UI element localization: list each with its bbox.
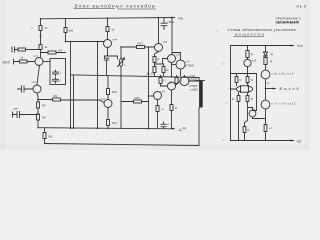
wire: VT4 emitter network with diode VD1 bbox=[104, 48, 117, 76]
wire: VT6 collector bbox=[171, 18, 173, 55]
wire: mirror rail bbox=[231, 73, 257, 75]
resistor R23 on vertical bbox=[163, 64, 165, 76]
svg-text:ОБОЗНАЧЕНИЯ: ОБОЗНАЧЕНИЯ bbox=[276, 20, 300, 24]
resistor R32 bbox=[243, 127, 246, 133]
svg-text:vт9: vт9 bbox=[161, 90, 166, 94]
top rail +U1 bbox=[41, 18, 175, 19]
svg-text:R: R bbox=[268, 81, 270, 85]
svg-text:vт5: vт5 bbox=[163, 40, 168, 44]
transistor VT10 (output, КТ805) bbox=[180, 77, 189, 86]
resistor R1 bbox=[39, 26, 42, 31]
svg-text:vд: vд bbox=[270, 52, 273, 56]
resistor R22 on base feed wire bbox=[121, 101, 149, 103]
svg-text:R17: R17 bbox=[138, 42, 144, 46]
svg-text:-Uп: -Uп bbox=[296, 140, 301, 144]
resistor R4 (collector link) bbox=[42, 52, 66, 54]
resistor R18 bbox=[153, 57, 156, 63]
wire: -U rail (appendix) bbox=[231, 140, 294, 142]
wire: long vertical to rail A bbox=[70, 42, 72, 129]
wire: collector column of VT4 bbox=[107, 18, 109, 39]
transistor VT5 (appendix) bbox=[244, 59, 251, 66]
wire: long vertical x148 bbox=[148, 47, 150, 129]
wire bbox=[176, 84, 177, 86]
svg-text:R: R bbox=[251, 53, 253, 57]
svg-text:ы: ы bbox=[223, 138, 225, 142]
transistor VT5 (driver) bbox=[158, 18, 160, 44]
svg-text:R: R bbox=[251, 97, 253, 101]
capacitor C9 bbox=[264, 125, 267, 132]
wire: output mid rail bbox=[71, 75, 200, 81]
margin noise marks bbox=[223, 62, 228, 142]
capacitor C7 with label век bbox=[14, 107, 19, 111]
resistor R27 bbox=[247, 46, 249, 60]
svg-text:R: R bbox=[240, 78, 242, 82]
title text bbox=[75, 3, 155, 9]
transistor VT12 (mirror, horizontal oval) bbox=[236, 86, 252, 93]
svg-text:R8: R8 bbox=[49, 135, 53, 139]
svg-text:vт1: vт1 bbox=[34, 54, 39, 58]
svg-text:R9: R9 bbox=[54, 94, 58, 98]
resistor R19 bbox=[153, 67, 156, 73]
svg-text:R: R bbox=[164, 79, 166, 83]
transistor VT4 bbox=[104, 40, 112, 48]
svg-text:vт8: vт8 bbox=[168, 81, 173, 85]
svg-text:R: R bbox=[175, 106, 177, 110]
wire: bottom rail B bbox=[45, 108, 200, 146]
resistor R25 bbox=[176, 76, 178, 78]
wire: column x65 bbox=[65, 19, 67, 42]
svg-text:век: век bbox=[14, 107, 19, 111]
wire: VT9 base bbox=[149, 95, 154, 97]
transistor VT2 bbox=[33, 85, 41, 93]
svg-text:R: R bbox=[251, 78, 253, 82]
transistor VT8 bbox=[161, 84, 168, 87]
right header: ПРИЛОЖЕНИЕ С bbox=[228, 16, 302, 36]
svg-text:+50м: +50м bbox=[167, 20, 174, 24]
svg-text:R: R bbox=[167, 68, 169, 72]
capacitor C3 (in box) bbox=[53, 77, 59, 83]
transistor VT13 with wire x256 bbox=[253, 74, 257, 111]
wire + resistor R5a: base line of VT1 bbox=[14, 59, 36, 64]
transistor VT6 bbox=[168, 55, 176, 63]
wire + resistor R26: VT8 emitter bbox=[171, 90, 173, 129]
svg-text:vт4: vт4 bbox=[113, 38, 118, 42]
svg-text:ы: ы bbox=[226, 101, 228, 105]
resistor R24 bbox=[160, 76, 162, 78]
node: input label Вход bbox=[3, 61, 11, 65]
wire: VT1 emitter to VT2 bbox=[37, 65, 40, 85]
wire: negative rail A (-U2) bbox=[38, 128, 175, 129]
load Rн (output bar) bbox=[197, 80, 205, 82]
capacitor C2 (in box) bbox=[53, 70, 59, 76]
diode VD2 column bbox=[120, 47, 122, 129]
svg-text:КТ808: КТ808 bbox=[186, 63, 194, 67]
svg-text:R: R bbox=[158, 58, 160, 62]
wire: left vertical bbox=[230, 46, 232, 141]
transistor VT1 bbox=[35, 58, 43, 66]
svg-text:vт5: vт5 bbox=[252, 59, 257, 63]
resistor R2 bbox=[39, 45, 42, 50]
title underline bbox=[74, 8, 156, 10]
svg-text:Вход: Вход bbox=[3, 61, 11, 65]
svg-text:R20: R20 bbox=[112, 90, 118, 94]
transistor VT9 bbox=[154, 92, 162, 100]
wire bbox=[97, 42, 99, 129]
resistor R33 bbox=[265, 56, 267, 70]
svg-text:R4: R4 bbox=[59, 49, 63, 53]
svg-text:vт2: vт2 bbox=[32, 80, 37, 84]
svg-text:R21: R21 bbox=[112, 121, 118, 125]
wire + resistors R20: VT3 column bbox=[107, 76, 109, 129]
svg-text:vт6,vт8,vт10: vт6,vт8,vт10 bbox=[272, 72, 294, 76]
svg-text:л: л bbox=[216, 29, 219, 33]
svg-text:vт7,vт9,vт11: vт7,vт9,vт11 bbox=[272, 102, 296, 106]
svg-text:R6: R6 bbox=[42, 116, 46, 120]
svg-text:R: R bbox=[270, 60, 272, 64]
svg-text:Rн: Rн bbox=[183, 126, 187, 130]
resistor R9 on VT3 base wire bbox=[38, 100, 104, 103]
capacitor C6: VT2 base input bbox=[18, 86, 34, 92]
resistor R12 bbox=[106, 27, 109, 32]
wire: base line to VT4 bbox=[66, 41, 104, 43]
wire + resistors R5,R6: VT2 emitter column bbox=[37, 93, 38, 128]
capacitor C1 (input coupling) bbox=[12, 47, 18, 52]
capacitor C5 on VT9 emitter bbox=[157, 100, 159, 129]
svg-text:+Uп: +Uп bbox=[297, 44, 303, 48]
resistors R28,R29 (mirror top) bbox=[237, 74, 248, 87]
svg-text:+U₁: +U₁ bbox=[178, 17, 185, 21]
svg-text:R22: R22 bbox=[135, 96, 141, 100]
resistor R4a (input) bbox=[18, 48, 26, 51]
wire: VT6 emitter bbox=[171, 63, 173, 76]
wire: +U rail (appendix) bbox=[231, 45, 294, 47]
resistors R30,R31 (mirror bottom) bbox=[239, 93, 248, 141]
svg-text:5к6: 5к6 bbox=[69, 29, 74, 33]
wire: VT5 emitter bbox=[155, 52, 159, 76]
svg-text:R: R bbox=[232, 97, 234, 101]
capacitor C8 on rail A bbox=[161, 122, 166, 129]
resistor R8 between rails bbox=[44, 128, 46, 143]
svg-text:R5: R5 bbox=[42, 104, 46, 108]
svg-text:Ив.8: Ив.8 bbox=[297, 4, 307, 8]
wire: vertical x73 bbox=[73, 75, 75, 129]
svg-text:vт3: vт3 bbox=[101, 97, 106, 101]
transistor VT7,VT9,VT11 (appendix lower) bbox=[261, 100, 270, 109]
wire bbox=[155, 59, 168, 65]
feedback network box bbox=[50, 59, 66, 85]
resistor R7 bbox=[64, 28, 67, 33]
svg-text:Схема однотактного усилителя: Схема однотактного усилителя bbox=[228, 28, 296, 32]
svg-text:кт805: кт805 bbox=[191, 88, 199, 92]
wire: collector column of VT1 bbox=[40, 19, 42, 58]
diode VD3 bbox=[264, 46, 268, 57]
wire bbox=[26, 49, 41, 51]
capacitor C4 (50м decoupling) bbox=[161, 18, 167, 30]
transistor VT6,VT8,VT10 (appendix upper) bbox=[261, 70, 270, 79]
node: output Выход bbox=[266, 88, 276, 90]
svg-text:ы: ы bbox=[223, 62, 225, 66]
svg-text:vт6: vт6 bbox=[176, 53, 181, 57]
paper background bbox=[0, 0, 310, 150]
wire bbox=[43, 61, 50, 63]
svg-text:R: R bbox=[248, 128, 250, 132]
resistor R3 (faint) bbox=[40, 35, 43, 37]
svg-text:Блок выходных каскадов: Блок выходных каскадов bbox=[75, 3, 155, 9]
resistor R17 on wire to driver base bbox=[121, 46, 155, 48]
wire: VT7 emitter bbox=[180, 69, 182, 76]
page number bbox=[297, 4, 307, 8]
transistor VT7 (output, КТ808) bbox=[173, 53, 181, 61]
